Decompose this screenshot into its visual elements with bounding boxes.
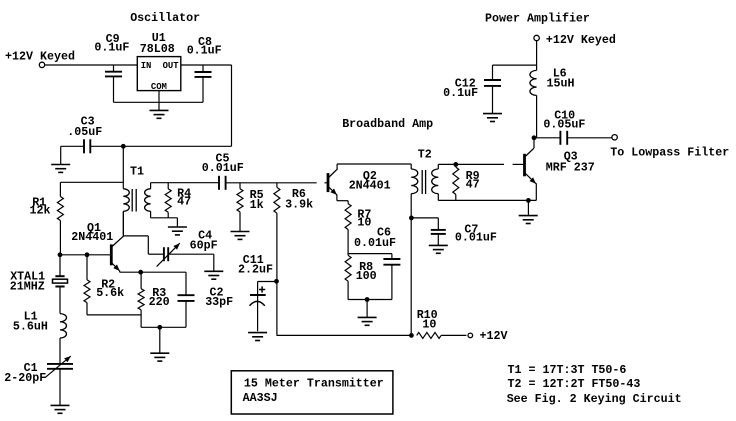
- svg-text:See Fig. 2 Keying Circuit: See Fig. 2 Keying Circuit: [507, 392, 682, 406]
- svg-text:47: 47: [466, 177, 480, 191]
- svg-text:+12V Keyed: +12V Keyed: [5, 50, 75, 64]
- svg-text:2N4401: 2N4401: [349, 179, 391, 193]
- svg-text:10: 10: [357, 216, 371, 230]
- svg-text:To Lowpass Filter: To Lowpass Filter: [610, 146, 729, 160]
- svg-text:47: 47: [177, 194, 191, 208]
- svg-text:Power Amplifier: Power Amplifier: [485, 11, 590, 25]
- svg-text:10: 10: [422, 318, 436, 332]
- svg-text:+12V: +12V: [480, 329, 508, 343]
- svg-text:5.6k: 5.6k: [96, 286, 124, 300]
- svg-text:T2 = 12T:2T FT50-43: T2 = 12T:2T FT50-43: [508, 377, 641, 391]
- svg-text:2N4401: 2N4401: [71, 230, 113, 244]
- svg-text:MRF 237: MRF 237: [546, 160, 595, 174]
- svg-text:15 Meter Transmitter: 15 Meter Transmitter: [244, 376, 384, 390]
- svg-text:33pF: 33pF: [205, 295, 233, 309]
- svg-text:0.05uF: 0.05uF: [543, 118, 585, 132]
- svg-text:T1: T1: [130, 164, 144, 178]
- svg-text:0.1uF: 0.1uF: [187, 44, 222, 58]
- svg-text:0.1uF: 0.1uF: [443, 86, 478, 100]
- svg-text:100: 100: [356, 269, 377, 283]
- svg-text:21MHZ: 21MHZ: [10, 280, 45, 294]
- svg-text:T1 = 17T:3T T50-6: T1 = 17T:3T T50-6: [508, 363, 627, 377]
- svg-text:12k: 12k: [30, 203, 51, 217]
- svg-text:COM: COM: [151, 82, 167, 92]
- svg-text:2-20pF: 2-20pF: [4, 371, 46, 385]
- svg-text:0.01uF: 0.01uF: [354, 236, 396, 250]
- svg-text:AA3SJ: AA3SJ: [243, 391, 278, 405]
- svg-text:Oscillator: Oscillator: [130, 11, 200, 25]
- svg-text:T2: T2: [418, 148, 432, 162]
- svg-text:Broadband Amp: Broadband Amp: [342, 117, 433, 131]
- svg-text:5.6uH: 5.6uH: [13, 319, 48, 333]
- svg-text:0.01uF: 0.01uF: [455, 231, 497, 245]
- svg-text:0.1uF: 0.1uF: [94, 40, 129, 54]
- svg-text:IN: IN: [141, 61, 152, 71]
- svg-text:15uH: 15uH: [547, 77, 575, 91]
- svg-text:78L08: 78L08: [140, 42, 175, 56]
- svg-text:3.9k: 3.9k: [285, 197, 313, 211]
- svg-text:OUT: OUT: [163, 61, 180, 71]
- svg-text:1k: 1k: [250, 198, 264, 212]
- svg-text:220: 220: [149, 295, 170, 309]
- svg-text:0.01uF: 0.01uF: [202, 161, 244, 175]
- svg-text:+12V Keyed: +12V Keyed: [546, 33, 616, 47]
- svg-text:.05uF: .05uF: [67, 125, 102, 139]
- svg-text:60pF: 60pF: [190, 239, 218, 253]
- svg-text:2.2uF: 2.2uF: [238, 263, 273, 277]
